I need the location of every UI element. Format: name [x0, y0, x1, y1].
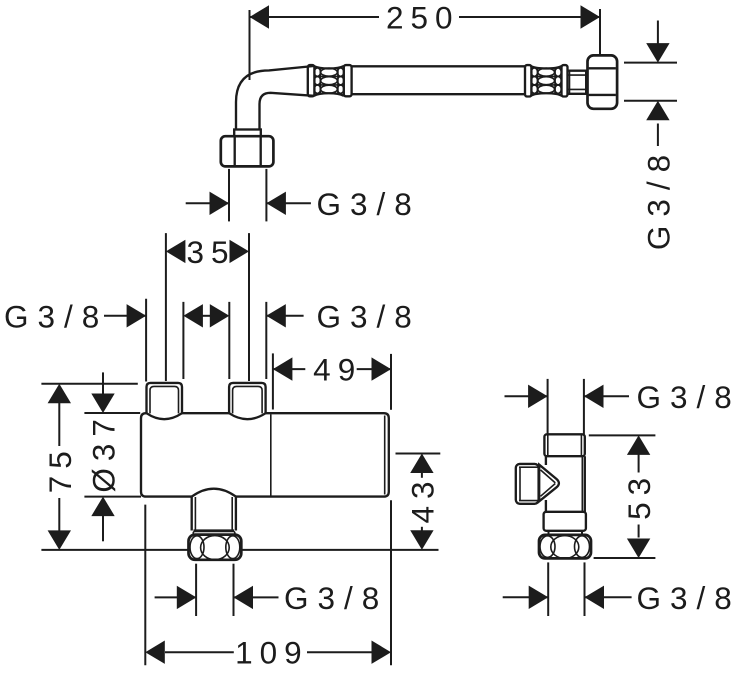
- svg-text:109: 109: [235, 635, 309, 671]
- svg-text:75: 75: [42, 444, 78, 493]
- svg-text:G3/8: G3/8: [637, 379, 738, 415]
- svg-text:49: 49: [313, 352, 362, 388]
- svg-text:Ø37: Ø37: [86, 412, 122, 493]
- svg-text:250: 250: [386, 0, 460, 36]
- svg-text:G3/8: G3/8: [317, 186, 421, 222]
- svg-text:35: 35: [186, 234, 235, 270]
- svg-text:G3/8: G3/8: [284, 580, 388, 616]
- svg-text:G3/8: G3/8: [317, 298, 421, 334]
- svg-text:G3/8: G3/8: [4, 298, 108, 334]
- svg-text:G3/8: G3/8: [640, 146, 676, 250]
- svg-text:G3/8: G3/8: [637, 580, 738, 616]
- svg-text:43: 43: [404, 474, 440, 523]
- svg-text:53: 53: [621, 471, 657, 520]
